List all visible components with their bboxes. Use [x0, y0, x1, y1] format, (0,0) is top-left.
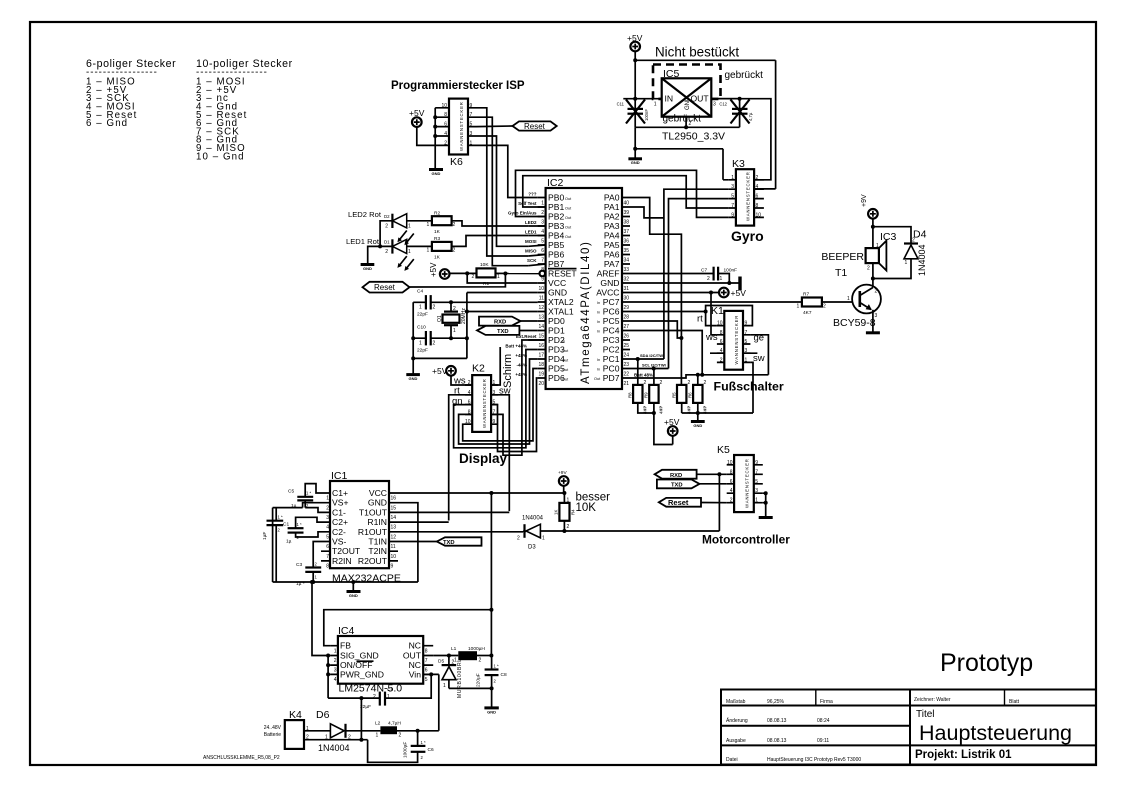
svg-text:7: 7 — [541, 257, 544, 263]
svg-text:???: ??? — [528, 192, 536, 197]
wire T1OUT to display sw — [397, 511, 510, 513]
svg-text:19: 19 — [538, 371, 544, 377]
svg-text:R2IN: R2IN — [332, 556, 352, 566]
dashed not-fitted box — [653, 65, 721, 99]
svg-text:100nF: 100nF — [644, 109, 649, 121]
svg-text:1 *: 1 * — [297, 522, 302, 527]
svg-text:24..48V: 24..48V — [264, 725, 282, 731]
junction dots on K6 bus — [433, 115, 437, 119]
svg-text:In: In — [597, 320, 600, 324]
svg-text:GND: GND — [368, 498, 387, 508]
svg-text:8: 8 — [326, 564, 329, 570]
svg-text:SCL I2C/TWI: SCL I2C/TWI — [642, 363, 666, 368]
svg-text:21: 21 — [624, 381, 630, 387]
svg-text:2: 2 — [433, 341, 436, 347]
G_BEEP — [630, 194, 927, 333]
svg-text:C4: C4 — [417, 289, 423, 295]
svg-text:31: 31 — [624, 286, 630, 292]
svg-text:2: 2 — [433, 305, 436, 311]
svg-text:LED2 Rot: LED2 Rot — [348, 210, 382, 219]
svg-text:1: 1 — [408, 249, 411, 255]
svg-text:9: 9 — [745, 321, 748, 327]
svg-text:LED2: LED2 — [525, 220, 537, 225]
svg-text:Out: Out — [565, 216, 572, 220]
svg-text:Reset: Reset — [374, 283, 396, 292]
svg-text:WANNENSTECKER: WANNENSTECKER — [746, 171, 751, 221]
svg-text:3: 3 — [755, 488, 758, 494]
svg-text:5: 5 — [731, 194, 734, 200]
wire K6 pin1 to PB0 — [476, 145, 538, 197]
G_IC1 — [262, 470, 719, 598]
svg-text:2: 2 — [452, 660, 455, 666]
svg-text:PC0: PC0 — [603, 364, 620, 374]
svg-text:1000µH: 1000µH — [468, 646, 485, 652]
capacitor C8 — [485, 668, 499, 670]
IC1 right pin stubs — [389, 493, 397, 542]
svg-text:gebrückt: gebrückt — [725, 70, 764, 81]
svg-text:9: 9 — [391, 564, 394, 570]
G_K1 — [697, 305, 784, 413]
wire LED2 to R2 — [407, 220, 432, 222]
G_IC2 — [467, 170, 768, 389]
svg-text:K2: K2 — [472, 363, 485, 375]
wire K6 pin5 to reset flag — [476, 125, 513, 128]
svg-text:GND: GND — [685, 96, 691, 110]
IC4 left pin names — [340, 641, 384, 680]
wire +5V to K6 pin2 — [417, 127, 435, 146]
wire K4 pin1 to D6 — [304, 730, 330, 732]
svg-text:3: 3 — [326, 515, 329, 521]
svg-text:1: 1 — [797, 304, 800, 310]
svg-text:40: 40 — [624, 200, 630, 206]
svg-text:C8: C8 — [501, 672, 507, 678]
svg-text:In: In — [562, 339, 565, 343]
svg-text:33: 33 — [624, 267, 630, 273]
svg-text:C6: C6 — [428, 747, 434, 753]
svg-text:5: 5 — [541, 238, 544, 244]
svg-text:32: 32 — [624, 276, 630, 282]
svg-text:WANNENSTECKER: WANNENSTECKER — [745, 458, 750, 508]
svg-text:22pF: 22pF — [417, 348, 428, 354]
svg-text:9: 9 — [470, 103, 473, 109]
wire pullup pair to +5V — [638, 403, 673, 445]
wire TXD to K5 pin6 — [700, 483, 727, 485]
wire LED2 cathode to LED1 cathode — [380, 221, 392, 247]
svg-text:PA0: PA0 — [604, 193, 620, 203]
ground under LEDs — [361, 263, 375, 266]
svg-text:6: 6 — [444, 122, 447, 128]
wire Reset to K5 pin2 — [701, 502, 727, 504]
gnd bus wire left of K6 — [434, 108, 436, 169]
svg-text:2: 2 — [479, 658, 482, 664]
svg-text:NC: NC — [409, 641, 421, 651]
svg-text:220µF: 220µF — [476, 673, 482, 687]
wire PB2 gyro ein/aus to K3 pin9 — [516, 170, 729, 217]
svg-text:D4: D4 — [913, 229, 927, 241]
svg-text:PC5: PC5 — [603, 316, 620, 326]
wire K2 pin6 gn to PD3 — [454, 350, 538, 448]
G_C7 — [630, 267, 746, 343]
svg-text:2: 2 — [689, 121, 692, 127]
K3 pin stubs left — [728, 180, 736, 218]
TXD flag IC1 — [437, 537, 482, 545]
wire PC0 SCL row — [630, 368, 669, 370]
svg-text:+48%: +48% — [515, 372, 527, 377]
svg-text:1: 1 — [847, 296, 850, 302]
svg-text:MOSI: MOSI — [525, 239, 537, 244]
svg-text:Maßstab: Maßstab — [726, 699, 746, 705]
wire TXD flag to T1IN — [397, 541, 437, 543]
svg-text:PA2: PA2 — [604, 212, 620, 222]
svg-text:08:24: 08:24 — [817, 718, 830, 724]
TXD flag — [477, 326, 519, 335]
svg-text:PA4: PA4 — [604, 231, 620, 241]
svg-text:13: 13 — [391, 525, 397, 531]
svg-text:10: 10 — [391, 554, 397, 560]
G_K2 — [432, 340, 538, 521]
svg-text:sw: sw — [753, 353, 765, 364]
svg-text:5: 5 — [425, 677, 428, 683]
svg-text:1: 1 — [470, 140, 473, 146]
svg-text:R9: R9 — [644, 392, 649, 398]
svg-text:D1: D1 — [384, 240, 390, 245]
svg-text:1: 1 — [419, 305, 422, 311]
svg-text:2: 2 — [912, 238, 915, 244]
wire K2 pin4 rt down to IC1 R1IN — [449, 395, 473, 521]
title table frame — [721, 690, 1096, 765]
svg-text:27: 27 — [624, 324, 630, 330]
svg-text:Nicht bestückt: Nicht bestückt — [655, 45, 739, 60]
svg-text:1: 1 — [427, 222, 430, 228]
svg-text:8: 8 — [425, 648, 428, 654]
G_IC4 — [310, 493, 507, 731]
K6 pin stubs left — [435, 108, 449, 146]
svg-text:1N4004: 1N4004 — [318, 743, 350, 753]
svg-text:6: 6 — [326, 544, 329, 550]
svg-text:36: 36 — [624, 238, 630, 244]
svg-text:C7: C7 — [701, 268, 707, 274]
svg-text:17: 17 — [538, 352, 544, 358]
IC2 RESET pin circle — [540, 271, 546, 277]
svg-text:12: 12 — [538, 305, 544, 311]
svg-text:D3: D3 — [528, 545, 536, 551]
svg-text:Out: Out — [562, 377, 569, 381]
svg-text:ws: ws — [705, 332, 718, 343]
svg-text:In: In — [597, 311, 600, 315]
svg-text:5: 5 — [755, 479, 758, 485]
wires C1 to pins — [296, 517, 323, 537]
wire to ground — [368, 246, 380, 263]
wire collector up — [872, 263, 874, 287]
IC2 right In/Out marks — [594, 301, 601, 381]
IC1 right pin names — [358, 488, 388, 566]
svg-text:D6: D6 — [316, 709, 330, 721]
svg-text:TXD: TXD — [497, 329, 509, 335]
wire K2 pin7 to PD2 — [491, 340, 538, 455]
wire PC7 row to R7 — [630, 301, 802, 303]
G_K3 — [664, 158, 764, 369]
svg-text:T1OUT: T1OUT — [359, 507, 388, 517]
wire C9 to Vin — [385, 674, 439, 730]
capacitor C2 — [267, 520, 284, 522]
wire C7 to gnd row — [718, 274, 729, 284]
svg-text:K5: K5 — [717, 444, 730, 456]
wire D4 bottom to emitter node — [873, 259, 911, 279]
svg-text:Out: Out — [565, 197, 572, 201]
svg-text:Out: Out — [565, 206, 572, 210]
svg-text:10K: 10K — [576, 502, 597, 514]
svg-text:25: 25 — [624, 343, 630, 349]
svg-text:10: 10 — [538, 286, 544, 292]
svg-text:6: 6 — [730, 479, 733, 485]
G_K4 — [203, 698, 439, 762]
wire K2 pin1 Schirm up — [491, 347, 500, 385]
IC2 left pin names — [548, 193, 577, 384]
svg-text:3: 3 — [713, 102, 716, 108]
svg-text:ATmega644PA(DIL40): ATmega644PA(DIL40) — [580, 241, 592, 384]
G_IC5 — [617, 33, 776, 189]
svg-text:Out: Out — [562, 358, 569, 362]
wire PA1 — [630, 207, 664, 218]
ground under regulator — [628, 157, 642, 160]
svg-text:35: 35 — [624, 248, 630, 254]
svg-text:23: 23 — [624, 362, 630, 368]
svg-text:9: 9 — [541, 276, 544, 282]
svg-text:GND: GND — [693, 423, 702, 428]
svg-text:8: 8 — [444, 112, 447, 118]
svg-text:6: 6 — [720, 339, 723, 345]
svg-text:2: 2 — [823, 304, 826, 310]
svg-text:GND: GND — [363, 266, 372, 271]
wire FB to +5V sense rail — [324, 610, 492, 646]
wire GND row — [630, 282, 740, 284]
svg-text:2: 2 — [385, 224, 388, 230]
wire +5V to K2 pin2 ws — [451, 375, 472, 385]
wire PC4 row to switch rail — [630, 331, 702, 375]
wire OUT row to L1 — [433, 655, 458, 657]
svg-text:15: 15 — [538, 333, 544, 339]
wire from IC1 gnd rail down — [312, 582, 328, 656]
wire C10 row — [413, 337, 467, 339]
svg-text:TXD: TXD — [671, 483, 683, 489]
svg-text:R5: R5 — [672, 392, 677, 398]
wire RXD to PD0 — [521, 320, 538, 322]
gnd rail under R5 R6 — [682, 403, 753, 421]
svg-text:4,7µ: 4,7µ — [748, 112, 753, 121]
svg-text:C5: C5 — [288, 489, 294, 495]
svg-text:HauptSteuerung I3C Prototyp Re: HauptSteuerung I3C Prototyp Rev5 T3000 — [767, 757, 861, 763]
+5V feed vertical — [490, 493, 492, 656]
svg-text:1: 1 — [419, 341, 422, 347]
svg-text:Titel: Titel — [916, 709, 935, 720]
svg-text:R1OUT: R1OUT — [358, 527, 388, 537]
svg-text:1: 1 — [755, 498, 758, 504]
junction at LED1 — [378, 244, 382, 248]
svg-text:C2-: C2- — [332, 527, 346, 537]
net stub PB3 LED2 — [528, 225, 545, 227]
reset flag at K6 — [513, 121, 557, 130]
wire ge hook to switch rail — [750, 335, 768, 375]
svg-text:PB0: PB0 — [548, 193, 564, 203]
svg-text:Programmierstecker ISP: Programmierstecker ISP — [391, 80, 525, 92]
svg-text:1: 1 — [453, 328, 456, 334]
svg-text:6 – Gnd: 6 – Gnd — [86, 118, 128, 129]
svg-text:08.08.13: 08.08.13 — [767, 718, 787, 724]
svg-text:T2OUT: T2OUT — [332, 546, 361, 556]
crystal leads — [450, 302, 452, 338]
svg-text:1: 1 — [408, 224, 411, 230]
svg-text:2: 2 — [326, 505, 329, 511]
svg-text:R2OUT: R2OUT — [358, 556, 388, 566]
svg-text:2: 2 — [334, 658, 337, 664]
svg-text:14: 14 — [538, 324, 544, 330]
svg-text:16: 16 — [391, 496, 397, 502]
G_TITLE — [721, 649, 1096, 765]
wire R7 to T1 base — [822, 301, 853, 303]
svg-text:PC7: PC7 — [603, 297, 620, 307]
svg-text:PB7: PB7 — [548, 259, 564, 269]
svg-text:In: In — [597, 368, 600, 372]
svg-text:GND: GND — [432, 171, 441, 176]
svg-text:ANSCHLUSSKLEMME_R5,08_P2: ANSCHLUSSKLEMME_R5,08_P2 — [203, 755, 280, 761]
svg-text:IC3: IC3 — [880, 231, 897, 243]
svg-text:100nF: 100nF — [724, 268, 738, 274]
svg-text:8: 8 — [756, 203, 759, 209]
svg-text:VS+: VS+ — [332, 498, 348, 508]
svg-text:2: 2 — [541, 210, 544, 216]
svg-text:1: 1 — [688, 406, 691, 412]
svg-text:10: 10 — [441, 103, 447, 109]
wire +5V to R1 — [449, 272, 476, 274]
wire gnd pins bus — [328, 656, 380, 699]
svg-text:SCK: SCK — [527, 258, 537, 263]
svg-text:1N4004: 1N4004 — [917, 244, 927, 276]
K1 pin stubs left — [717, 326, 724, 363]
svg-text:2: 2 — [472, 274, 475, 280]
svg-text:XTAL2: XTAL2 — [548, 297, 574, 307]
svg-text:PA5: PA5 — [604, 240, 620, 250]
svg-text:1: 1 — [334, 648, 337, 654]
wire K5 gnd pins — [763, 493, 766, 517]
svg-text:C2+: C2+ — [332, 517, 348, 527]
svg-text:PD7: PD7 — [603, 373, 620, 383]
svg-text:PWR_GND: PWR_GND — [340, 669, 384, 679]
svg-text:SDA I2C/TWI: SDA I2C/TWI — [640, 353, 664, 358]
svg-text:D2: D2 — [384, 214, 390, 219]
svg-text:D5: D5 — [438, 659, 444, 665]
svg-text:GND: GND — [487, 710, 496, 715]
svg-text:2: 2 — [644, 380, 647, 386]
net stub PB5 MOSI — [528, 245, 545, 246]
svg-text:16: 16 — [538, 343, 544, 349]
svg-text:1: 1 — [567, 498, 570, 504]
svg-text:Batt 48%: Batt 48% — [634, 372, 653, 377]
K3 pin stubs right — [754, 180, 764, 218]
svg-text:4: 4 — [334, 677, 337, 683]
svg-text:PA1: PA1 — [604, 202, 620, 212]
wires C3 — [313, 542, 322, 583]
svg-text:Gyro Ein/Aus: Gyro Ein/Aus — [508, 211, 537, 216]
svg-text:VCC: VCC — [548, 278, 566, 288]
wire K2 pin8 to PD4 — [459, 359, 538, 444]
ground under C8 — [484, 706, 498, 709]
svg-text:9: 9 — [755, 460, 758, 466]
svg-text:5: 5 — [470, 122, 473, 128]
svg-text:5: 5 — [745, 339, 748, 345]
svg-text:Änderung: Änderung — [726, 717, 748, 724]
svg-text:Blatt: Blatt — [1009, 699, 1020, 705]
G_PULL — [628, 359, 754, 445]
wire L2 to Vin riser — [397, 730, 439, 732]
LED D1 arrows — [400, 256, 414, 268]
wire PC1 SDA row — [630, 358, 664, 360]
svg-text:6: 6 — [425, 668, 428, 674]
wire loop over K1 — [706, 306, 753, 326]
svg-text:T1: T1 — [835, 267, 847, 279]
svg-text:In: In — [597, 358, 600, 362]
svg-text:LED1: LED1 — [525, 230, 537, 235]
svg-text:10: 10 — [717, 321, 723, 327]
wire R1 to RESET pin — [496, 272, 540, 274]
svg-text:PB1: PB1 — [548, 202, 564, 212]
svg-text:C1: C1 — [283, 522, 289, 528]
wire R1OUT serial line long — [397, 530, 720, 533]
svg-text:PB6: PB6 — [548, 250, 564, 260]
svg-text:+9V: +9V — [861, 194, 868, 207]
svg-text:Out: Out — [594, 377, 601, 381]
wire gnd bus to battery minus — [360, 698, 362, 740]
bottom rail of regulator — [635, 126, 739, 128]
svg-text:38: 38 — [624, 219, 630, 225]
svg-text:WANNENSTECKER: WANNENSTECKER — [734, 315, 739, 365]
svg-text:PC6: PC6 — [603, 307, 620, 317]
svg-text:2: 2 — [468, 380, 471, 386]
svg-text:BEEPER: BEEPER — [821, 251, 864, 263]
svg-text:R6: R6 — [688, 392, 693, 398]
svg-text:4: 4 — [730, 488, 733, 494]
wire K6 pin3 to PB5 MOSI — [476, 136, 528, 246]
wire AREF row — [630, 273, 714, 275]
svg-text:Vin: Vin — [409, 669, 421, 679]
svg-text:L2: L2 — [375, 721, 381, 727]
svg-text:Gyro: Gyro — [731, 228, 764, 244]
svg-text:VS-: VS- — [332, 537, 346, 547]
gnd link vertical — [466, 293, 468, 359]
connector K6 — [449, 99, 468, 155]
wires C5 to pins — [305, 484, 322, 513]
wire PC6 row to K1 — [630, 311, 706, 313]
svg-text:C9: C9 — [387, 687, 393, 693]
wire XTAL1 row — [467, 311, 538, 313]
svg-text:1: 1 — [542, 536, 545, 542]
svg-text:OUT: OUT — [403, 651, 422, 661]
svg-text:11: 11 — [539, 295, 544, 301]
svg-text:2: 2 — [453, 222, 456, 228]
svg-text:15: 15 — [391, 505, 397, 511]
ground under xtal bus — [406, 373, 420, 376]
svg-text:30: 30 — [624, 295, 630, 301]
svg-text:rt: rt — [697, 314, 703, 325]
svg-text:1K: 1K — [434, 229, 441, 235]
svg-text:TL2950_3.3V: TL2950_3.3V — [662, 131, 725, 143]
LED D2 arrows — [400, 231, 414, 243]
IC2 left pin stubs — [538, 198, 546, 379]
svg-text:3: 3 — [470, 131, 473, 137]
svg-text:PC1: PC1 — [603, 354, 620, 364]
svg-text:Reset: Reset — [668, 498, 689, 507]
svg-text:1000µF: 1000µF — [403, 742, 409, 758]
resistor R8 pullup SDA — [637, 359, 639, 385]
